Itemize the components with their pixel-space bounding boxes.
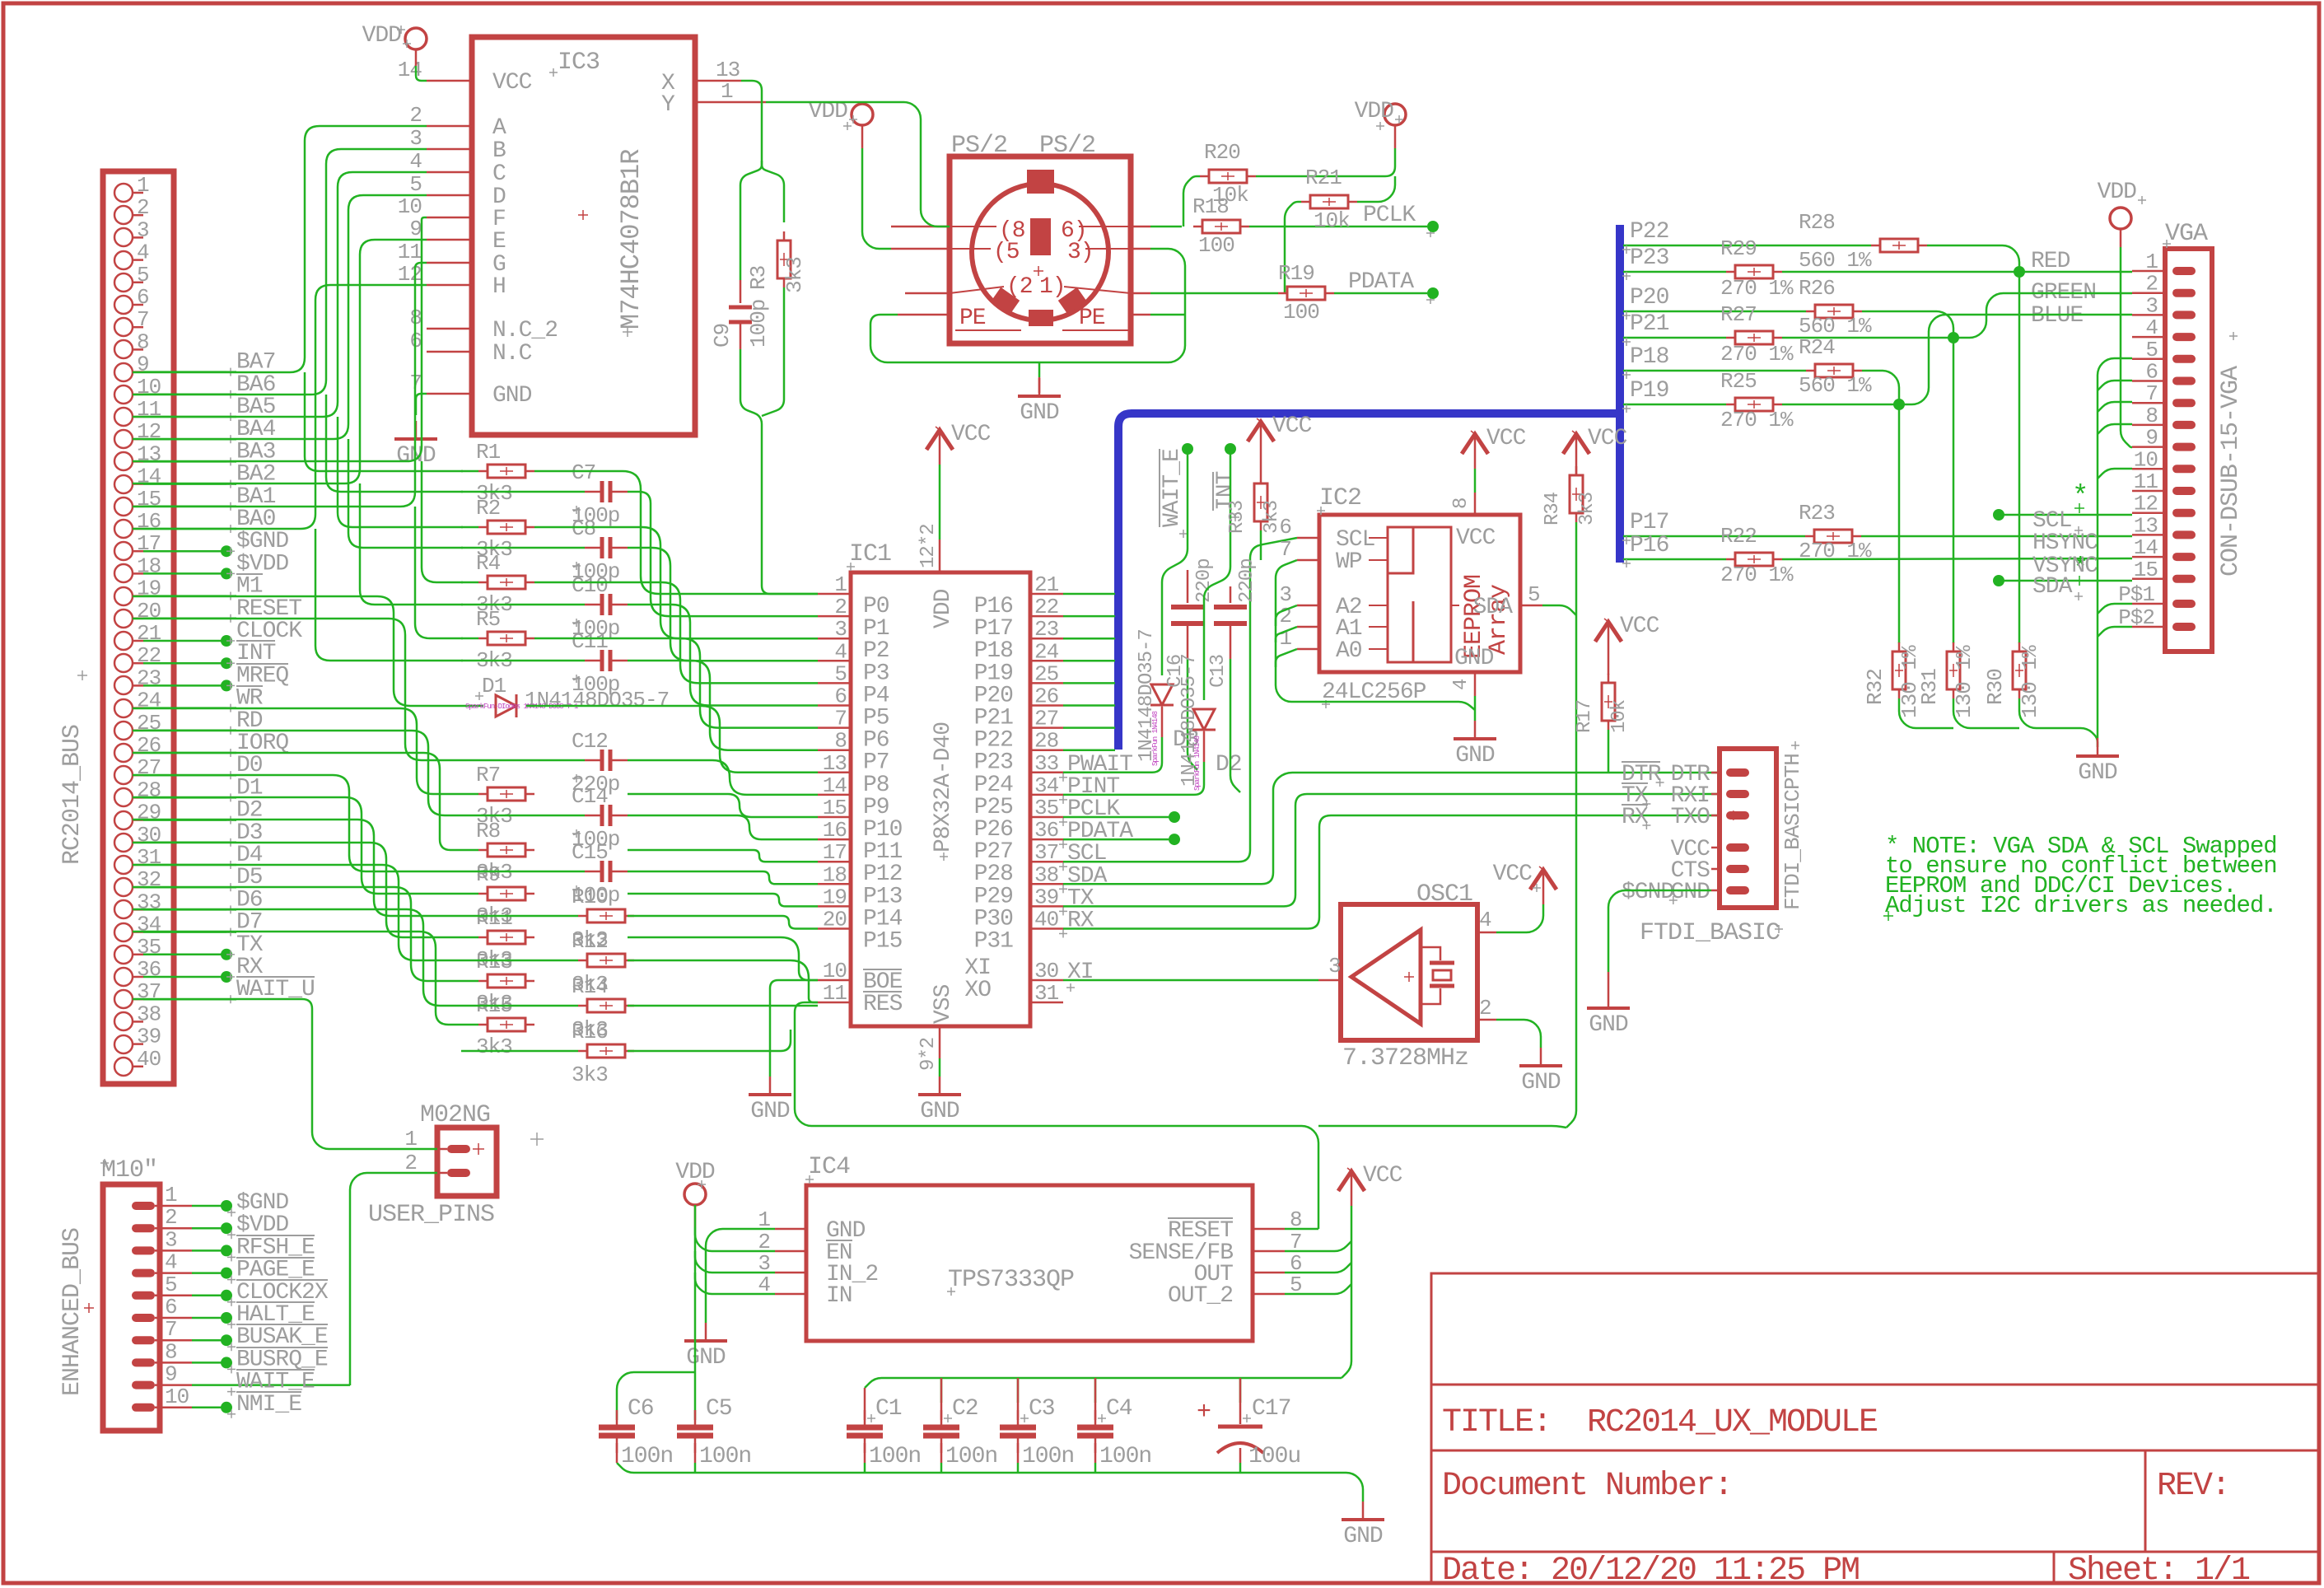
capacitor C13 220p [1230,586,1232,603]
VGA pin P$1 [2172,600,2196,608]
wire RC row to IC1 pin 18 [628,960,818,1002]
capacitor C4 100n [1094,1378,1097,1420]
svg-text:14: 14 [823,773,847,798]
wire IC1 VSS to GND [939,1058,941,1077]
RC2014_BUS pin 40 [114,1058,133,1076]
OSC1 triangle and crystal [1351,930,1421,1024]
wire RC row to IC1 pin 11 [628,794,818,817]
RC2014_BUS pin 29 (D2) [114,811,133,829]
IC1 pin 40 (P31) [1030,927,1063,930]
capacitor C16 220p [1187,570,1189,603]
IC3 pin 13 (X) [695,80,741,82]
RC2014_BUS pin 35 (TX) [114,946,133,964]
wire VDD to PS/2 pin 5 [861,125,864,148]
ENHANCED_BUS pin 4 (PAGE_E) [132,1269,155,1277]
wire PWAIT net to D3/WAIT_E [1063,737,1162,773]
IC1 pin 26 (P21) [1030,704,1063,707]
power VDD (VGA) [2110,208,2131,229]
IC1 pin 35 (P26) [1030,816,1063,819]
wire IC3 Y to PS/2 pin 8 [766,102,950,227]
svg-text:WAIT_E: WAIT_E [1160,449,1185,527]
svg-text:40: 40 [137,1047,161,1072]
svg-text:5: 5 [165,1273,177,1297]
VGA pin 3 [2172,311,2196,319]
svg-text:11: 11 [398,240,422,264]
svg-text:9*2: 9*2 [917,1038,940,1071]
svg-text:31: 31 [137,845,161,870]
FTDI pin RXI [1726,790,1749,798]
wire R16 row extension [628,1030,791,1051]
node BLUE junction dot [1893,399,1905,410]
resistor R19 100 [1278,292,1334,295]
OSC1 pin 2 [1477,1019,1496,1021]
svg-text:1): 1) [1039,274,1066,300]
wire R28 out to RED junction [1927,245,2019,272]
svg-text:P18: P18 [1630,344,1668,370]
connector ENHANCED_BUS body [103,1184,160,1431]
FTDI pin CTS [1726,865,1749,873]
svg-text:7: 7 [834,707,847,731]
wire+resistor R25 270 1% (P19) [1623,404,1726,406]
resistor R5 3k3 [461,638,478,640]
svg-text:VDD: VDD [362,23,402,49]
wire bus signal row 1 to RC row [133,619,461,760]
wire PS/2 pin1 to R19 [1150,292,1278,295]
svg-text:P20: P20 [1630,285,1669,311]
IC1 pin 37 (P28) [1030,861,1063,863]
wire IC1 P19 to blue bus [1063,660,1115,662]
wire VDD down to C5/C6 [694,1205,697,1420]
wire GND rail (caps) [617,1463,1363,1502]
svg-text:17: 17 [137,531,161,556]
OSC1 body [1341,904,1477,1040]
resistor R2 3k3 [461,526,478,529]
svg-text:2: 2 [404,1151,417,1175]
svg-text:1: 1 [404,1127,417,1151]
svg-text:P23: P23 [1630,245,1669,271]
IC1 pin 25 (P20) [1030,682,1063,684]
svg-text:6: 6 [1279,515,1291,539]
svg-text:R17: R17 [1574,700,1596,733]
svg-text:VDD: VDD [2098,180,2137,205]
wire VDD to IC4 pins [694,1205,697,1227]
M02NG pin 2 [447,1169,470,1177]
VGA pin 7 [2172,399,2196,407]
svg-text:2: 2 [165,1205,177,1230]
wire RC row to IC1 pin 2 [628,492,818,616]
svg-text:28: 28 [1034,729,1058,754]
IC1 pin 4 (P3) [818,660,851,662]
RC2014_BUS pin 38 [114,1012,133,1030]
wire PINT net to D2/INT [1063,762,1204,795]
svg-text:10k: 10k [1314,208,1350,233]
svg-text:P8X32A-D40: P8X32A-D40 [931,722,956,852]
svg-text:100: 100 [1198,233,1234,258]
svg-text:GND: GND [1454,646,1494,671]
svg-text:Date: 20/12/20 11:25 PM: Date: 20/12/20 11:25 PM [1442,1553,1859,1588]
svg-text:18: 18 [823,862,847,887]
ground GND (VGA) [2097,738,2099,756]
svg-text:R8: R8 [476,819,500,843]
RC2014_BUS pin 28 (D1) [114,788,133,806]
svg-text:R33: R33 [1226,501,1248,534]
wire+resistor R26 560 1% (P20) [1623,311,1806,313]
IC1 body [851,572,1030,1026]
svg-text:2: 2 [1479,996,1491,1021]
wire D6 to RC row [133,909,461,1006]
svg-text:22: 22 [1034,595,1058,619]
capacitor C1 100n [864,1388,866,1420]
capacitor C7 100p [461,491,585,493]
svg-text:R20: R20 [1204,140,1240,165]
svg-text:4: 4 [1450,679,1472,690]
svg-text:560 1%: 560 1% [1799,248,1872,273]
svg-text:130 1%: 130 1% [2018,645,2042,718]
svg-text:14: 14 [2134,535,2158,560]
wire BLUE to VGA pin3 [1899,315,2132,404]
wire BA3 net (bus to IC3 E and RC row) [133,217,427,461]
svg-text:E: E [492,229,506,255]
wire IC1 P20 to blue bus [1063,682,1115,684]
svg-text:100n: 100n [621,1444,673,1469]
svg-text:R32: R32 [1863,669,1888,705]
svg-text:N.C_2: N.C_2 [492,318,558,343]
wire R27 out to GREEN junction [1782,337,1953,339]
svg-text:P31: P31 [974,929,1014,955]
svg-text:VSS: VSS [931,984,956,1024]
capacitor C15 100p [461,871,585,873]
VGA pin 12 [2172,509,2196,517]
svg-text:CON-DSUB-15-VGA: CON-DSUB-15-VGA [2217,366,2245,577]
svg-text:M02NG: M02NG [420,1101,490,1129]
wire VCC vertical (IC4 outputs) [1285,1241,1351,1251]
svg-text:26: 26 [1034,684,1058,709]
svg-text:40: 40 [1034,908,1058,932]
svg-text:4: 4 [1479,908,1491,932]
svg-text:21: 21 [1034,572,1059,597]
svg-text:XO: XO [964,978,991,1003]
svg-text:C15: C15 [572,840,608,865]
power VDD (IC3) [405,28,427,49]
svg-text:4: 4 [2145,315,2158,340]
wire RC row to IC1 pin 4 [628,548,818,661]
svg-text:6: 6 [137,285,149,310]
svg-text:25: 25 [137,711,161,736]
IC1 pin 20 (P15) [818,927,851,930]
svg-text:13: 13 [2134,513,2158,538]
svg-text:11: 11 [2134,469,2158,494]
resistor R18 100 [1193,226,1249,228]
wire D5 to RC row [133,887,461,981]
svg-text:1: 1 [137,173,149,198]
wire RC row to IC1 pin 9 [526,706,818,773]
IC1 pin 34 (P25) [1030,794,1063,796]
svg-text:270 1%: 270 1% [1720,408,1794,432]
svg-text:RX: RX [1067,908,1094,934]
IC1 pin 16 (P11) [818,838,851,841]
IC1 pin 22 (P17) [1030,615,1063,618]
IC4 pin 3 (IN_2) [775,1272,806,1274]
ground GND (OSC1) [1540,1048,1542,1066]
VGA pin P$2 [2172,623,2196,631]
svg-text:R4: R4 [476,551,501,576]
resistor R1 3k3 [461,470,478,473]
svg-text:GND: GND [1671,880,1710,905]
svg-text:R13: R13 [476,950,512,974]
resistor R14 3k3 [461,1005,578,1007]
wire D2 to PINT [1203,731,1206,762]
IC3 pin 12 (H) [427,284,472,287]
svg-text:OUT_2: OUT_2 [1168,1283,1233,1309]
wire BA0 net (bus to IC3 H and RC row) [133,285,427,529]
IC1 pin 5 (P4) [818,682,851,684]
VGA pin 10 [2172,465,2196,473]
svg-text:A0: A0 [1336,638,1362,664]
wire R29 out to RED junction [1782,271,2019,273]
svg-text:R23: R23 [1799,501,1835,525]
svg-text:GND: GND [920,1099,959,1124]
wire RX net to FTDI TXO [1063,815,1720,929]
ground GND (PS/2) [1038,378,1041,396]
RC2014_BUS pin 32 (D5) [114,878,133,896]
svg-text:Sheet: 1/1: Sheet: 1/1 [2068,1553,2250,1588]
origin cross (M02NG) [530,1138,544,1140]
wire+resistor R22 270 1% (P16) [1623,558,1726,561]
IC1 pin 12*2 (VDD) stub [939,539,941,572]
PS/2 key notches [1027,170,1054,194]
RC2014_BUS pin 13 (BA3) [114,452,133,470]
power VCC (OSC1) [1542,870,1545,904]
RC2014_BUS pin 25 (RD) [114,722,133,740]
svg-text:R22: R22 [1720,524,1757,549]
svg-text:P15: P15 [863,929,903,955]
wire VGA ground pins chain [2098,358,2132,738]
resistor R32 130 1% [1898,642,1901,698]
IC3 pin 6 (N.C) [427,351,472,353]
wire+resistor R24 560 1% (P18) [1623,370,1806,372]
svg-text:GND: GND [1343,1524,1383,1549]
power VCC (R17) [1608,622,1610,656]
wire IC3 pin7 to GND [416,394,427,415]
resistor R3 [783,231,786,287]
svg-text:15: 15 [823,796,847,820]
svg-text:10: 10 [137,375,161,399]
capacitor C10 100p [461,604,585,606]
svg-text:TPS7333QP: TPS7333QP [948,1266,1074,1294]
svg-text:M10": M10" [101,1156,157,1184]
IC1 pin 3 (P2) [818,638,851,640]
wire bus signal row 4 to RC row [133,753,461,850]
svg-text:OSC1: OSC1 [1416,880,1472,908]
VGA pin 15 [2172,575,2196,583]
RC2014_BUS pin 18 ($VDD) [114,564,133,582]
RC2014_BUS pin 36 (RX) [114,968,133,986]
svg-text:R18: R18 [1192,194,1229,219]
svg-text:R5: R5 [476,607,500,632]
wire BA6 net (bus to IC3 B and RC row) [133,149,427,395]
node PCLK junction dot [1169,811,1180,823]
svg-text:9: 9 [409,217,422,241]
FTDI pin DTR [1726,768,1749,777]
VGA pin 14 [2172,553,2196,561]
svg-text:C6: C6 [628,1396,654,1422]
resistor R33 3k3 [1260,456,1262,474]
svg-text:C12: C12 [572,729,608,754]
svg-text:R2: R2 [476,496,500,521]
FTDI pin TXO [1726,811,1749,820]
wire RC row to IC1 pin 13 [628,850,818,862]
wire GREEN to VGA pin2 [1953,293,2132,338]
RC2014_BUS pin 31 (D4) [114,856,133,874]
wire RC row to IC1 pin 17 [628,937,818,980]
wire R14 row extension [628,1005,818,1007]
svg-text:R21: R21 [1305,166,1342,190]
wire RC row to IC1 pin 5 [534,582,818,683]
svg-text:30: 30 [137,823,161,848]
RC2014_BUS pin 33 (D6) [114,900,133,918]
IC1 pin 11 (RES) [818,1002,851,1004]
wire R22 out to VGA pin14 (VSYNC) [1782,558,2132,559]
node SCL dot (VGA) [1993,509,2004,521]
svg-text:$GND: $GND [1622,880,1673,905]
IC2 pin 5 (SDA) [1520,605,1542,607]
svg-text:21: 21 [137,621,161,646]
wire IC3 X to R3/C9 top [741,81,762,161]
svg-text:RX: RX [1622,805,1649,830]
svg-text:8: 8 [1450,498,1472,509]
wire GREEN junction down [1953,338,1955,643]
RC2014_BUS pin 9 (BA7) [114,363,133,381]
IC4 pin 5 (OUT_2) [1253,1293,1285,1296]
svg-text:PCLK: PCLK [1363,203,1416,228]
svg-text:IC4: IC4 [808,1153,850,1181]
svg-text:IC1: IC1 [849,540,891,568]
svg-text:VSYNC: VSYNC [2032,553,2098,579]
svg-text:14: 14 [398,58,422,82]
power VDD (PS/2 pullups) [1384,104,1406,125]
svg-text:SparkFun 1N4148: SparkFun 1N4148 [1151,711,1160,766]
svg-text:Document Number:: Document Number: [1442,1468,1732,1505]
svg-text:27: 27 [137,755,161,780]
svg-text:37: 37 [137,979,161,1004]
wire BA7 net (bus to IC3 A and RC row) [133,126,427,372]
wire IC1 BOE to GND [770,980,818,1077]
power VCC (R33) [1260,422,1262,456]
IC1 pin 28 (P23) [1030,749,1063,751]
RC2014_BUS pin 26 (IORQ) [114,744,133,762]
svg-text:R24: R24 [1799,335,1835,360]
connector RC2014_BUS body [103,171,174,1084]
svg-text:R10: R10 [572,885,608,909]
resistor R12 3k3 [461,960,578,962]
wire R31 bottom [1953,698,2019,728]
ground GND (IC2) [1474,721,1477,739]
svg-text:D1: D1 [482,674,506,698]
svg-text:3: 3 [165,1227,177,1252]
svg-text:PE: PE [959,306,986,331]
svg-text:8: 8 [2145,404,2158,428]
svg-text:GND: GND [1589,1012,1628,1038]
capacitor C2 100n [940,1378,943,1420]
ground GND (IC1 VSS) [939,1077,941,1095]
IC2 pin 8 (VCC) [1474,493,1477,515]
svg-text:IC3: IC3 [558,49,600,77]
svg-text:RC2014_BUS: RC2014_BUS [58,725,86,865]
wire+resistor R23 270 1% (P17) [1623,535,1805,538]
wire SDA IC2 to vertical [1542,605,1576,615]
svg-text:560 1%: 560 1% [1799,373,1872,398]
IC1 pin 10 (BOE) [818,979,851,982]
capacitor C3 100n [1017,1378,1020,1420]
svg-text:100: 100 [1283,300,1319,325]
RC2014_BUS pin 34 (D7) [114,923,133,941]
capacitor C14 100p [461,815,585,817]
capacitor C9 [740,280,742,303]
svg-text:36: 36 [137,957,161,982]
IC1 pin 38 (P29) [1030,883,1063,885]
svg-text:15: 15 [2134,558,2158,582]
IC1 pin 2 (P1) [818,615,851,618]
IC1 pin 19 (P14) [818,905,851,908]
wire WAIT_E vertical [1162,449,1188,675]
wire PS/2 GND drop [1038,362,1041,377]
wire BA4 net (bus to IC3 D and RC row) [133,195,427,439]
RC2014_BUS pin 27 (D0) [114,766,133,784]
svg-text:18: 18 [137,553,161,578]
svg-text:5: 5 [1528,582,1540,607]
wire $GND to GND [1608,890,1711,972]
power VCC (IC4 out) [1351,1171,1353,1206]
svg-text:25: 25 [1034,661,1058,686]
wire RC row to IC1 pin 6 [628,605,818,706]
RC2014_BUS pin 17 ($GND) [114,542,133,560]
ground GND (FTDI) [1608,990,1610,1008]
svg-text:VDD: VDD [675,1160,715,1185]
IC4 pin 4 (IN) [775,1293,806,1296]
power VCC (IC1) [939,430,941,465]
VGA pin 1 [2172,267,2196,275]
svg-text:28: 28 [137,778,161,802]
svg-text:8: 8 [165,1339,177,1364]
wire R24 out to BLUE junction [1862,371,1899,404]
IC4 pin 6 (OUT) [1253,1272,1285,1274]
FTDI_BASIC connector body [1720,749,1776,908]
ENHANCED_BUS pin 2 ($VDD) [132,1224,155,1232]
svg-text:R7: R7 [476,763,500,787]
svg-text:270 1%: 270 1% [1720,276,1794,301]
svg-text:16: 16 [137,509,161,534]
svg-text:10: 10 [823,959,847,983]
svg-text:4: 4 [834,639,847,664]
svg-text:3: 3 [137,217,149,242]
IC3 pin 9 (E) [427,239,472,241]
svg-text:3: 3 [834,617,847,642]
ground GND (IC1 BOE) [769,1077,772,1095]
wire bus signal row 2 to RC row [133,708,461,794]
IC1 pin 14 (P9) [818,794,851,796]
svg-text:35: 35 [137,935,161,960]
wire WAIT_U to M02NG pin1 [133,999,437,1149]
title block outer box [1431,1273,2319,1583]
svg-text:23: 23 [137,666,161,690]
svg-text:20: 20 [823,908,847,932]
svg-text:7.3728MHz: 7.3728MHz [1342,1044,1468,1072]
svg-text:6: 6 [834,684,847,709]
svg-text:GND: GND [1455,743,1495,768]
OSC1 pin 4 [1477,932,1496,934]
IC2 body [1319,515,1520,672]
wire IC1 P23 to blue bus [1063,749,1115,751]
